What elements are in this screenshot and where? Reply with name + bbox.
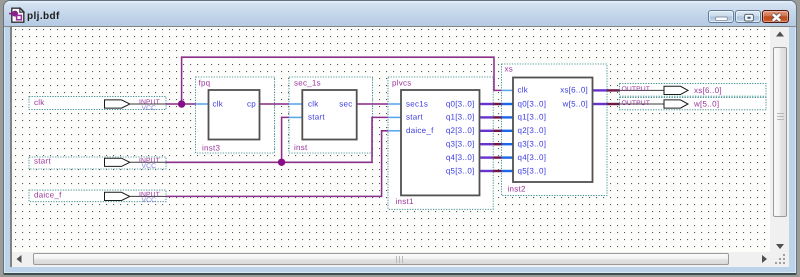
svg-text:sec1s: sec1s (406, 99, 428, 108)
junction clk node (178, 100, 185, 107)
svg-text:VCC: VCC (142, 197, 157, 204)
bus stub xs.w out (593, 103, 608, 105)
svg-text:OUTPUT: OUTPUT (622, 100, 651, 107)
output pin xs[6..0] (620, 84, 767, 97)
minimize button (708, 10, 734, 23)
svg-text:inst: inst (294, 143, 308, 152)
bus stub xs.q4 (502, 156, 514, 158)
pin stub sec_1s.sec (357, 103, 373, 105)
svg-text:fpq: fpq (199, 79, 211, 88)
svg-text:q1[3..0]: q1[3..0] (518, 113, 547, 122)
bus stub xs.q5 (502, 170, 514, 172)
input pin daice_f (29, 190, 166, 204)
output pin w[5..0] (620, 98, 767, 110)
svg-text:clk: clk (518, 86, 529, 95)
svg-text:w[5..0]: w[5..0] (562, 99, 588, 108)
pin stub plvcs.daice_f (388, 130, 401, 132)
svg-text:q2[3..0]: q2[3..0] (518, 126, 547, 135)
svg-text:start: start (406, 113, 423, 122)
input pin clk (29, 97, 166, 112)
bus net q3 plvcs to xs (493, 143, 501, 145)
wire start pin to junction (166, 161, 282, 163)
pin stub sec_1s.clk (289, 103, 302, 105)
block xs U inst2 (502, 64, 608, 196)
bus stub plvcs.q0 (480, 103, 494, 105)
svg-text:plvcs: plvcs (392, 79, 411, 88)
bus net xs out to pin xs (607, 89, 620, 91)
pin stub fpq.clk (196, 103, 209, 105)
svg-text:q4[3..0]: q4[3..0] (518, 153, 547, 162)
block fpq body (209, 90, 260, 140)
svg-text:cp: cp (247, 99, 256, 108)
svg-text:VCC: VCC (142, 163, 157, 170)
svg-text:q5[3..0]: q5[3..0] (446, 166, 475, 175)
junction start node (278, 159, 285, 166)
svg-text:xs: xs (505, 65, 514, 74)
svg-text:sec: sec (339, 99, 352, 108)
svg-text:clk: clk (308, 99, 319, 108)
svg-text:start: start (34, 156, 51, 165)
block fpq U inst3 (196, 77, 275, 153)
wire start junction up to sec_1s.start (282, 117, 289, 162)
bus stub plvcs.q1 (480, 116, 494, 118)
svg-text:start: start (308, 113, 325, 122)
bus net q5 plvcs to xs (493, 170, 501, 172)
svg-text:q0[3..0]: q0[3..0] (518, 99, 547, 108)
wire start junction to plvcs.start (282, 117, 388, 162)
bus stub plvcs.q2 (480, 130, 494, 132)
bus net q2 plvcs to xs (493, 130, 501, 132)
block plvcs body (401, 90, 480, 195)
pin stub sec_1s.start (289, 116, 302, 118)
pin stub plvcs.sec1s (388, 103, 401, 105)
maximize/restore button (735, 10, 761, 23)
svg-text:OUTPUT: OUTPUT (622, 86, 651, 93)
svg-text:daice_f: daice_f (406, 126, 434, 135)
pin stub plvcs.start (388, 116, 401, 118)
block sec_1s U inst (289, 77, 373, 153)
pin stub xs.clk (502, 89, 514, 91)
horizontal scrollbar (12, 252, 771, 268)
svg-text:clk: clk (34, 98, 45, 107)
svg-text:q0[3..0]: q0[3..0] (446, 99, 475, 108)
wire sec_1s.sec to plvcs.sec1s (373, 103, 389, 105)
bus stub xs.xs out (593, 89, 608, 91)
bus net w out to pin w (607, 103, 620, 105)
bus net q0 plvcs to xs (493, 103, 501, 105)
svg-text:inst1: inst1 (396, 197, 414, 206)
wire clk junction to fpq.clk (182, 103, 196, 105)
svg-text:xs[6..0]: xs[6..0] (560, 86, 588, 95)
svg-text:q5[3..0]: q5[3..0] (518, 166, 547, 175)
wire daice_f pin to plvcs.daice_f (166, 131, 388, 197)
input pin start (29, 156, 166, 170)
bus stub plvcs.q4 (480, 156, 494, 158)
wire fpq.cp to sec_1s.clk (275, 103, 290, 105)
bus stub xs.q2 (502, 130, 514, 132)
svg-text:inst2: inst2 (508, 185, 526, 194)
bus stub xs.q3 (502, 143, 514, 145)
svg-text:w[5..0]: w[5..0] (693, 100, 719, 109)
vertical scrollbar (772, 27, 788, 252)
pin stub fpq.cp (260, 103, 275, 105)
block xs body (513, 78, 593, 183)
svg-text:daice_f: daice_f (34, 190, 62, 199)
svg-text:inst3: inst3 (202, 143, 220, 152)
svg-text:xs[6..0]: xs[6..0] (694, 86, 722, 95)
svg-text:sec_1s: sec_1s (294, 79, 321, 88)
document icon plj.bdf (8, 6, 26, 24)
bus net q1 plvcs to xs (493, 116, 501, 118)
svg-text:q1[3..0]: q1[3..0] (446, 113, 475, 122)
svg-text:VCC: VCC (142, 105, 157, 112)
bus stub plvcs.q3 (480, 143, 494, 145)
resize grip corner (770, 252, 789, 268)
close button (762, 10, 789, 23)
svg-text:q4[3..0]: q4[3..0] (446, 153, 475, 162)
bus stub xs.q1 (502, 116, 514, 118)
bus net q4 plvcs to xs (493, 156, 501, 158)
bus stub plvcs.q5 (480, 170, 494, 172)
svg-text:q3[3..0]: q3[3..0] (446, 140, 475, 149)
svg-text:clk: clk (213, 99, 224, 108)
svg-text:q3[3..0]: q3[3..0] (518, 140, 547, 149)
bus stub xs.q0 (502, 103, 514, 105)
svg-text:q2[3..0]: q2[3..0] (446, 126, 475, 135)
wire clk top rail to xs.clk (182, 57, 502, 104)
wire clk pin to junction (166, 103, 182, 105)
block plvcs U inst1 (388, 77, 493, 209)
block sec_1s body (302, 90, 356, 140)
